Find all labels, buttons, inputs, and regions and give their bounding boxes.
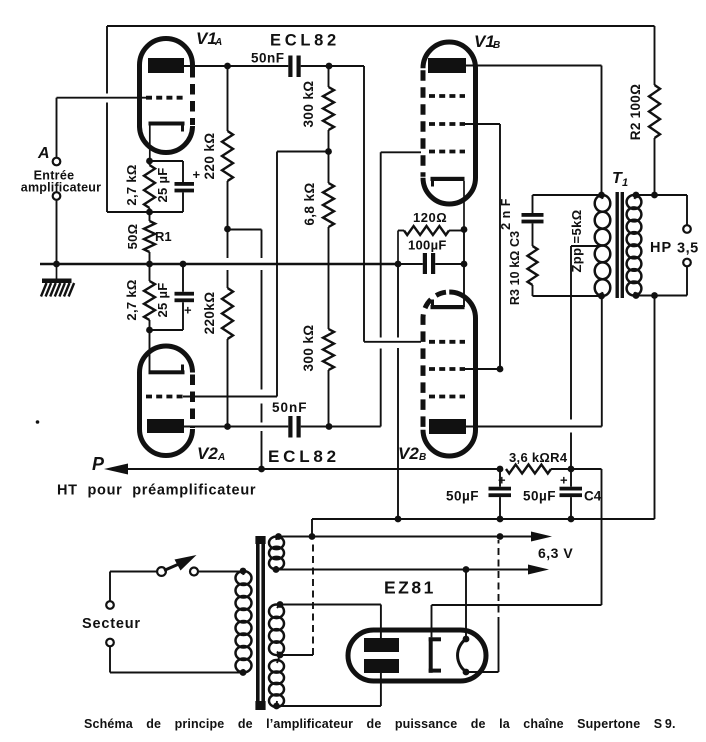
capacitor 50nF upper	[288, 56, 300, 78]
label P	[92, 454, 105, 474]
svg-text:+: +	[193, 167, 201, 182]
svg-text:ECL82: ECL82	[270, 32, 340, 50]
V2A anode	[147, 419, 184, 433]
V1A anode	[148, 58, 184, 73]
label V2A	[197, 444, 225, 463]
svg-text:A: A	[217, 452, 225, 463]
label R1	[155, 229, 172, 244]
junction S3 bottom	[273, 703, 280, 710]
capacitor 25uF lower	[175, 264, 195, 330]
svg-text:HP: HP	[650, 240, 672, 256]
svg-text:1: 1	[622, 177, 628, 189]
wire secondary ground drop	[312, 296, 655, 520]
junction T1 primary top	[598, 192, 605, 199]
junction heater1 ground	[309, 533, 316, 540]
wire mains bottom	[110, 646, 243, 672]
label HT pour preamplificateur	[57, 483, 256, 499]
wire divider to V2A grid riser	[277, 152, 329, 397]
svg-text:B: B	[419, 452, 426, 463]
label V1B	[474, 32, 500, 51]
wire V2A grid line	[183, 396, 277, 398]
wire EZ81 anode top feed	[280, 605, 381, 640]
label 120ohm	[413, 210, 447, 225]
label 2.7k lower	[124, 279, 139, 320]
svg-text:R1: R1	[155, 229, 172, 244]
junction ground link	[395, 516, 402, 523]
junction output cathodes upper	[461, 226, 468, 233]
rectifier EZ81	[348, 630, 486, 681]
junction 2.7k lower top	[146, 261, 153, 268]
wire ground bus	[40, 263, 398, 266]
label 6.8k	[302, 182, 317, 225]
speaker terminal HP top	[683, 225, 691, 233]
resistor 2.7k lower	[144, 264, 155, 330]
svg-text:V1: V1	[474, 32, 495, 51]
junction ground bus end	[395, 261, 402, 268]
svg-text:+: +	[184, 303, 192, 318]
label 300k lower	[301, 324, 316, 371]
svg-text:2,7 kΩ: 2,7 kΩ	[124, 279, 139, 320]
wire 50nF top to V2B grid riser	[364, 66, 421, 342]
transformer HT winding S2	[269, 605, 284, 656]
label V1A	[196, 29, 222, 48]
resistor 2.7k upper	[144, 161, 155, 212]
wire cathode box bottom	[150, 211, 184, 213]
label R4 3.6k	[509, 450, 568, 465]
svg-text:EZ81: EZ81	[384, 578, 436, 598]
transformer mains core	[255, 536, 265, 710]
wire ground rail psu	[312, 518, 655, 520]
svg-text:50nF: 50nF	[272, 400, 308, 415]
V1B grid g3	[429, 94, 465, 98]
wire EZ81 heater top lead	[465, 570, 467, 640]
junction R1 top	[146, 209, 153, 216]
svg-text:B: B	[493, 40, 500, 51]
wire secondary top to HP	[636, 195, 687, 225]
wire heater line 1	[279, 532, 553, 542]
V2A grid	[146, 395, 183, 399]
label + 50uF left	[498, 473, 506, 488]
wire V2B g2 link	[464, 368, 500, 370]
label Secteur	[82, 616, 141, 632]
V2B cathode	[431, 300, 465, 310]
wire HT drop x262	[261, 230, 263, 470]
resistor 300k upper	[323, 66, 334, 152]
caption	[84, 717, 676, 731]
svg-text:220 kΩ: 220 kΩ	[202, 132, 217, 179]
triode V2A	[140, 346, 193, 455]
wire HT jog to x262	[228, 229, 262, 231]
svg-text:Secteur: Secteur	[82, 616, 141, 632]
transformer T1 secondary	[627, 195, 642, 296]
capacitor 50uF left	[489, 469, 512, 519]
junction S2 bottom HT center tap	[277, 652, 284, 659]
node A input terminal	[53, 158, 61, 200]
wire ground link from bus	[397, 264, 399, 519]
wire EZ81 anode bottom feed	[277, 672, 381, 706]
junction B+ node	[568, 466, 575, 473]
resistor R2 100ohm	[649, 26, 660, 195]
stray dot	[36, 420, 40, 424]
junction input ground	[53, 261, 60, 268]
label EZ81	[384, 578, 436, 598]
EZ81 cathode	[429, 637, 441, 673]
junction preamp HT tap	[258, 466, 265, 473]
wire snubber bottom	[533, 295, 602, 297]
V2B anode	[429, 419, 466, 434]
arrow P HT preamp	[104, 464, 500, 475]
pentode V2B	[423, 292, 476, 456]
speaker terminal HP bottom	[683, 259, 691, 267]
svg-text:C4: C4	[584, 489, 602, 504]
svg-text:+: +	[498, 473, 506, 488]
svg-text:300 kΩ: 300 kΩ	[301, 324, 316, 371]
EZ81 anode 1	[364, 638, 399, 652]
wire T1 center tap	[571, 246, 598, 469]
terminal secteur bottom	[106, 639, 114, 647]
transformer HT winding S3	[269, 655, 284, 707]
svg-text:amplificateur: amplificateur	[21, 181, 101, 195]
V1B anode	[428, 58, 466, 73]
capacitor 100uF	[398, 253, 464, 274]
svg-text:2 n F: 2 n F	[499, 198, 513, 230]
wire feedback to R1	[107, 211, 150, 213]
svg-text:3,6 kΩR4: 3,6 kΩR4	[509, 450, 568, 465]
svg-text:50nF: 50nF	[251, 51, 285, 66]
label + upper 25uF	[193, 167, 201, 182]
wire input to V1A grid	[57, 98, 147, 158]
label C4	[584, 489, 602, 504]
junction 50nF lower - 300k node	[326, 423, 333, 430]
transformer T1 primary	[595, 195, 611, 296]
label ECL82 upper	[270, 32, 340, 50]
label T1	[612, 170, 628, 189]
V1B cathode	[431, 177, 465, 230]
junction heater2 EZ81	[463, 566, 470, 573]
junction T1 primary bottom	[598, 293, 605, 300]
resistor 300k lower	[323, 329, 334, 427]
svg-text:R2 100Ω: R2 100Ω	[628, 84, 643, 140]
svg-text:V1: V1	[196, 29, 217, 48]
label 220k upper	[202, 132, 217, 179]
junction g2 tie	[497, 366, 504, 373]
ground	[41, 264, 74, 297]
label Zpp	[569, 209, 584, 272]
junction 50uF left ground	[497, 516, 504, 523]
V2A cathode	[149, 365, 185, 375]
label 2.7k upper	[124, 164, 139, 205]
label 50uF right	[523, 489, 556, 504]
junction mains primary bottom	[240, 669, 247, 676]
capacitor 25uF upper	[175, 182, 195, 212]
svg-text:6,8 kΩ: 6,8 kΩ	[302, 182, 317, 225]
junction S1 bottom	[273, 566, 280, 573]
svg-text:HT pour préamplificateur: HT pour préamplificateur	[57, 483, 256, 499]
junction C4 ground	[568, 516, 575, 523]
svg-text:P: P	[92, 454, 105, 474]
junction V2A anode	[224, 423, 231, 430]
junction 50nF-300k node	[326, 63, 333, 70]
wire feedback left drop	[106, 26, 108, 212]
junction R2 secondary	[651, 192, 658, 199]
wire EZ81 cathode lead	[432, 605, 602, 637]
junction V1A anode	[224, 63, 231, 70]
label A	[37, 145, 50, 162]
wire input lower terminal to ground bus	[56, 200, 58, 264]
label 6,3V	[538, 545, 573, 561]
svg-text:V2: V2	[197, 444, 218, 463]
V1B grid g1	[429, 150, 465, 154]
svg-text:120Ω: 120Ω	[413, 210, 447, 225]
svg-text:100µF: 100µF	[408, 238, 447, 253]
wire cathode box lower	[150, 330, 184, 371]
svg-text:Zpp =5kΩ: Zpp =5kΩ	[569, 209, 584, 272]
resistor R3 10k	[528, 223, 538, 296]
wire V1B grid riser	[381, 152, 421, 426]
label 25uF upper	[155, 167, 170, 202]
junction paraphase divider	[325, 148, 332, 155]
label 50nF upper	[251, 51, 285, 66]
wire snubber top	[533, 195, 602, 213]
wire ground rail to heater1	[311, 519, 313, 537]
svg-text:25 µF: 25 µF	[155, 282, 170, 317]
wire HT center tap dashed	[280, 541, 313, 655]
label 25uF lower	[155, 282, 170, 317]
svg-text:ECL82: ECL82	[268, 447, 340, 466]
svg-text:50µF: 50µF	[446, 489, 479, 504]
wire V1B anode line	[466, 66, 602, 196]
svg-text:3,5: 3,5	[677, 241, 699, 257]
wire B+ riser	[571, 469, 602, 605]
switch mains	[157, 555, 198, 576]
resistor 220k lower	[222, 288, 233, 427]
resistor 220k upper	[222, 66, 233, 229]
V1B grid g2	[429, 122, 465, 126]
resistor 120ohm	[398, 226, 464, 264]
V1A cathode	[149, 122, 185, 162]
resistor R4 3.6k	[506, 465, 571, 474]
V2B grid g3	[429, 395, 465, 399]
capacitor C4 50uF	[560, 469, 583, 519]
wire feedback top rail	[107, 25, 655, 27]
label + C4	[560, 473, 568, 488]
junction T1 secondary top	[633, 192, 640, 199]
label R2 100ohm	[628, 84, 643, 140]
triode V1A	[140, 39, 193, 153]
wire heater line 2	[276, 565, 549, 575]
transformer T1 core	[616, 192, 625, 298]
svg-text:Schéma de principe de l’amplif: Schéma de principe de l’amplificateur de…	[84, 717, 676, 731]
wire V1B g2 drop	[464, 124, 500, 369]
wire V2A anode line	[184, 426, 381, 428]
capacitor C3 2nF	[522, 213, 544, 223]
terminal secteur top	[106, 601, 114, 609]
junction 25uF lower top	[180, 261, 187, 268]
label V2B	[398, 444, 426, 463]
resistor R1 50ohm	[144, 212, 155, 264]
junction output cathodes lower	[461, 261, 468, 268]
V2B grid g2	[429, 367, 465, 371]
wire V2B cathode lead	[463, 230, 465, 308]
junction mains primary top	[240, 568, 247, 575]
wire mains top	[110, 572, 243, 602]
svg-text:R3 10 kΩ C3: R3 10 kΩ C3	[508, 231, 522, 305]
svg-text:A: A	[214, 37, 222, 48]
EZ81 heater	[458, 636, 470, 676]
svg-text:50µF: 50µF	[523, 489, 556, 504]
label 300k upper	[301, 80, 316, 127]
V1A grid	[146, 96, 183, 100]
label 2nF	[499, 198, 513, 230]
transformer mains primary	[236, 571, 252, 673]
svg-text:6,3 V: 6,3 V	[538, 545, 573, 561]
wire V1A anode line	[184, 65, 364, 67]
svg-text:50Ω: 50Ω	[125, 224, 140, 250]
label 50uF left	[446, 489, 479, 504]
label 100uF	[408, 238, 447, 253]
junction screens node	[497, 466, 504, 473]
pentode V1B	[423, 42, 476, 204]
junction V2A cathode node	[146, 327, 153, 334]
svg-text:25 µF: 25 µF	[155, 167, 170, 202]
capacitor 50nF lower	[288, 416, 300, 438]
wire secondary bottom to HP	[636, 266, 687, 295]
wire EZ81 heater bottom lead	[467, 540, 499, 672]
label 220k lower	[202, 292, 217, 335]
junction S2 top	[277, 601, 284, 608]
label ECL82 lower	[268, 447, 340, 466]
resistor 6.8k	[323, 152, 334, 330]
junction S1 top	[275, 533, 282, 540]
label 50nF lower	[272, 400, 308, 415]
junction heater1 EZ81	[497, 533, 504, 540]
label R3 10k C3	[508, 231, 522, 305]
V2B grid g1	[429, 340, 465, 344]
label + lower 25uF	[184, 303, 192, 318]
junction T1 secondary bottom	[633, 292, 640, 299]
label Entrée amplificateur	[21, 169, 101, 195]
label HP 3,5	[650, 240, 699, 257]
junction secondary ground	[651, 292, 658, 299]
label 50ohm	[125, 224, 140, 250]
junction 220k loads	[224, 226, 231, 233]
svg-text:300 kΩ: 300 kΩ	[301, 80, 316, 127]
junction V1A cathode	[146, 158, 153, 165]
svg-text:2,7 kΩ: 2,7 kΩ	[124, 164, 139, 205]
svg-text:A: A	[37, 145, 50, 162]
EZ81 anode 2	[364, 659, 399, 673]
wire V2B anode line	[466, 296, 602, 427]
svg-text:220kΩ: 220kΩ	[202, 292, 217, 335]
svg-text:+: +	[560, 473, 568, 488]
wire 220k lower feed	[227, 229, 229, 288]
svg-text:V2: V2	[398, 444, 419, 463]
transformer heater winding S1	[269, 537, 284, 570]
wire cathode box top	[150, 161, 184, 182]
